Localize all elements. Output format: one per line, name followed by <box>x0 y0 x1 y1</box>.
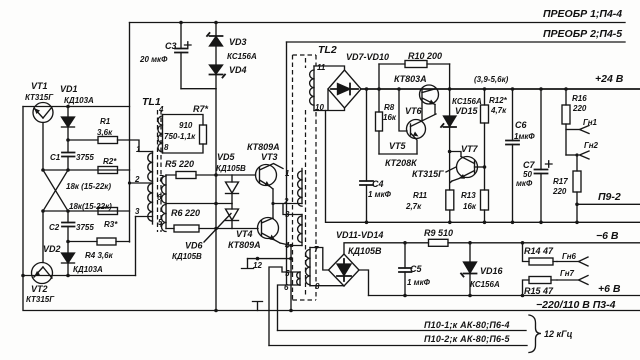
svg-text:R17: R17 <box>553 177 568 186</box>
node VD column R6 row <box>214 227 218 231</box>
label VT6 <box>405 106 423 116</box>
svg-text:С4: С4 <box>372 179 384 189</box>
svg-text:VT4: VT4 <box>236 229 253 239</box>
wire tap to TL2 pins 2-3 <box>273 204 302 215</box>
svg-text:910: 910 <box>179 121 193 130</box>
label +6 В <box>598 283 621 295</box>
label -6 В <box>596 230 619 242</box>
node VD column mid row <box>214 202 218 206</box>
wire П10-2 <box>269 345 527 347</box>
label R9 510 <box>424 228 453 238</box>
diode VD6 КД105В <box>226 204 239 229</box>
label C2 <box>49 223 60 232</box>
wire П10-1 <box>278 330 527 332</box>
chassis symbol on П3-4 <box>253 302 263 311</box>
capacitor C4 1мкФ <box>360 87 373 224</box>
svg-text:КТ208К: КТ208К <box>385 158 418 168</box>
svg-text:П10-1;к АК-80;П6-4: П10-1;к АК-80;П6-4 <box>424 320 510 330</box>
label КТ803А <box>394 74 427 84</box>
shield box TL2 dashed <box>293 55 317 300</box>
ground symbol at 12 <box>242 259 254 269</box>
svg-text:8: 8 <box>315 282 320 291</box>
svg-text:1: 1 <box>136 145 141 154</box>
svg-text:VD5: VD5 <box>217 152 236 162</box>
svg-text:VD15: VD15 <box>455 106 479 116</box>
svg-text:КД105В: КД105В <box>216 164 246 173</box>
svg-text:КТ315Г: КТ315Г <box>26 295 55 304</box>
label VD15 <box>455 106 479 116</box>
resistor R7 loop across 4-8 <box>163 115 207 154</box>
wire cross-coupling diagonal A <box>43 170 68 211</box>
wire rectifier minus column <box>326 111 640 223</box>
svg-text:Гн7: Гн7 <box>560 269 575 278</box>
wire TL2 pin7 to bridge <box>310 248 329 271</box>
label R6 220 <box>171 208 200 218</box>
svg-text:18к (15-22к): 18к (15-22к) <box>66 182 111 191</box>
wire VT7 collector row <box>448 150 461 157</box>
svg-text:220: 220 <box>572 104 587 113</box>
label (3,9-5,6к) <box>474 75 509 84</box>
resistor R10 200 <box>379 61 450 68</box>
label VD4 <box>229 65 247 75</box>
resistor R11 2,7к <box>446 152 454 225</box>
svg-text:8: 8 <box>164 143 169 152</box>
label КТ809А VT4 <box>228 240 261 250</box>
resistor R15 47 <box>521 277 557 298</box>
label VT2 <box>31 284 48 294</box>
wire VD3-VD4 column down <box>215 89 217 311</box>
label 12 <box>253 261 262 270</box>
label VD6 with pointer <box>185 214 231 251</box>
wire cross-coupling diagonal B <box>43 170 68 211</box>
wire left emitter column <box>23 107 640 311</box>
label VT4 <box>236 229 253 239</box>
resistor R9 510 <box>429 239 449 246</box>
label R16 <box>572 94 587 103</box>
svg-text:3: 3 <box>285 210 290 219</box>
label VT3 <box>261 152 278 162</box>
svg-text:R5 220: R5 220 <box>165 159 194 169</box>
label 3755 C2 <box>76 223 94 232</box>
svg-text:VT2: VT2 <box>31 284 48 294</box>
wire R8 bottom row <box>379 153 417 155</box>
resistor R5 220 <box>166 172 216 179</box>
svg-text:16к: 16к <box>383 113 397 122</box>
svg-text:мкФ: мкФ <box>516 179 533 188</box>
svg-text:1 мкФ: 1 мкФ <box>407 278 431 287</box>
wire TL1 bottom to emitter row <box>135 217 137 276</box>
zener VD3 КС156А <box>207 23 223 66</box>
svg-text:R13: R13 <box>461 191 476 200</box>
capacitor C2 3755 <box>62 211 75 253</box>
label C6 <box>515 120 527 130</box>
transistor VT3 КТ809А <box>256 164 284 190</box>
wire pin6 row <box>278 285 301 331</box>
zener VD16 КС156А <box>461 241 477 297</box>
connector Гн1 <box>566 126 589 134</box>
label C5 <box>410 264 422 274</box>
svg-text:С5: С5 <box>410 264 422 274</box>
label C3 <box>165 41 177 51</box>
label 3,6к R1 <box>97 128 113 137</box>
label VD11-VD14 <box>336 230 383 240</box>
transformer TL1 winding 7-6-5 <box>162 175 167 232</box>
svg-text:750-1,1к: 750-1,1к <box>164 132 196 141</box>
label VD2 <box>43 244 61 254</box>
transistor VT1 КТ315Г <box>33 103 53 171</box>
resistor R8 16к <box>376 64 383 154</box>
svg-text:КС156А: КС156А <box>452 97 482 106</box>
wire top supply rail ПРЕОБР1 <box>130 22 626 24</box>
resistor R16 220 <box>562 87 570 155</box>
svg-text:TL1: TL1 <box>142 96 161 108</box>
label pin 2 TL2 <box>283 197 289 206</box>
svg-text:П10-2;к АК-80;П6-5: П10-2;к АК-80;П6-5 <box>424 334 510 344</box>
bridge rectifier VD11-VD14 <box>329 254 360 286</box>
svg-text:R10 200: R10 200 <box>408 51 442 61</box>
svg-text:VT5: VT5 <box>389 141 407 151</box>
svg-text:R4 3,6к: R4 3,6к <box>85 251 114 260</box>
diode VD5 КД105В <box>226 175 239 204</box>
label П10-2 <box>424 334 510 344</box>
svg-text:R14 47: R14 47 <box>524 246 554 256</box>
node VD column R5 row <box>214 173 218 177</box>
svg-text:C2: C2 <box>49 223 60 232</box>
capacitor C5 1мкФ <box>399 241 412 297</box>
label 2,7к R11 <box>405 202 422 211</box>
label VT7 <box>461 144 479 154</box>
label pin 6 TL1 <box>157 193 162 202</box>
svg-text:3: 3 <box>135 207 140 216</box>
svg-text:7: 7 <box>314 245 319 254</box>
label П10-1 <box>424 320 510 330</box>
resistor R4 3,6к <box>68 238 130 245</box>
wire pin5 hook to П10-2 riser <box>269 267 300 346</box>
label TL2 <box>318 44 337 56</box>
svg-text:С6: С6 <box>515 120 527 130</box>
label pin 8 TL1 <box>164 143 169 152</box>
transformer TL1 primary winding <box>148 152 153 225</box>
label pin 3 TL1 <box>135 207 140 216</box>
wire ПРЕОБР 2 line <box>287 41 626 43</box>
label 1мкФ C5 <box>407 278 431 287</box>
svg-text:−6 В: −6 В <box>596 230 619 242</box>
svg-text:12: 12 <box>253 261 262 270</box>
svg-text:−220/110 В П3-4: −220/110 В П3-4 <box>536 299 616 311</box>
connector Гн2 <box>566 151 589 159</box>
label pin 8 TL2 <box>315 282 320 291</box>
capacitor C7 50мкФ <box>535 87 553 224</box>
wire VT2 emitter-collector row <box>21 274 135 278</box>
transistor VT6 КТ803А <box>420 85 439 120</box>
transistor VT4 КТ809А <box>258 218 281 244</box>
svg-text:КТ803А: КТ803А <box>394 74 427 84</box>
svg-text:16к: 16к <box>463 202 477 211</box>
label КС156А VD3-VD4 <box>227 52 257 61</box>
label pin 3 TL2 <box>285 210 290 219</box>
svg-text:R11: R11 <box>413 191 428 200</box>
label КД103А VD2 <box>73 265 103 274</box>
label pin 6 TL2 <box>284 283 289 292</box>
svg-text:Гн2: Гн2 <box>584 141 599 150</box>
label pin 7 TL2 <box>314 245 319 254</box>
wire pin11 to bridge top <box>314 66 345 70</box>
label R3 <box>104 220 118 229</box>
label C7 <box>523 160 535 170</box>
svg-text:R6 220: R6 220 <box>171 208 200 218</box>
svg-text:1 мкФ: 1 мкФ <box>368 190 392 199</box>
wire TL1 pin2 <box>128 181 153 184</box>
svg-text:220: 220 <box>552 187 567 196</box>
wire VT3 emitter to VT4 collector <box>271 189 274 218</box>
label pin 11 TL2 <box>317 63 326 72</box>
label 750-1,1к R7 <box>164 132 196 141</box>
svg-text:50: 50 <box>523 170 532 179</box>
svg-text:R7*: R7* <box>193 104 209 114</box>
transformer TL2 primary 1-2 <box>298 169 302 207</box>
wire left supply column <box>129 23 131 243</box>
resistor R3 18к <box>98 208 118 215</box>
label КС156А VD16 <box>470 280 500 289</box>
label C1 <box>50 153 61 162</box>
label R5 220 <box>165 159 194 169</box>
svg-text:1мкФ: 1мкФ <box>514 132 535 141</box>
wire VT1 collector row <box>23 106 130 108</box>
label R8 <box>384 103 395 112</box>
svg-text:VT3: VT3 <box>261 152 278 162</box>
svg-text:2,7к: 2,7к <box>405 202 422 211</box>
label pin 1 TL1 <box>136 145 141 154</box>
label R17 <box>553 177 568 186</box>
connector Гн7 <box>557 276 588 285</box>
label Гн7 <box>560 269 575 278</box>
label R13 <box>461 191 476 200</box>
label 18к R3 <box>69 202 112 211</box>
svg-text:КТ809А: КТ809А <box>247 142 280 152</box>
label Гн2 <box>584 141 599 150</box>
wire VT5 base stub <box>399 89 407 131</box>
label pin 5 TL2 <box>285 269 290 278</box>
svg-text:КД105В: КД105В <box>348 246 382 256</box>
svg-text:КД103А: КД103А <box>73 265 103 274</box>
label -220/110 В П3-4 <box>536 299 616 311</box>
svg-text:VD3: VD3 <box>229 37 247 47</box>
diode VD1 КД103А <box>62 105 75 152</box>
svg-text:КТ809А: КТ809А <box>228 240 261 250</box>
label 3755 C1 <box>76 153 94 162</box>
svg-text:VD1: VD1 <box>60 84 78 94</box>
label 16к R8 <box>383 113 397 122</box>
label ПРЕОБР 1 <box>543 8 622 20</box>
resistor R1 3,6к <box>66 137 129 144</box>
svg-text:Гн1: Гн1 <box>583 118 598 127</box>
svg-text:КД103А: КД103А <box>64 96 94 105</box>
svg-text:2: 2 <box>134 175 140 184</box>
label КТ315Г VT1 <box>25 93 54 102</box>
transformer TL2 winding 11-10 <box>310 66 314 111</box>
wire VT4 emitter to TL2 pin4 <box>280 243 302 246</box>
node VT6 rail <box>397 87 401 91</box>
zener VD15 КС156А <box>441 64 456 152</box>
svg-text:R8: R8 <box>384 103 395 112</box>
label VD7-VD10 <box>346 52 389 62</box>
label R10 200 <box>408 51 442 61</box>
svg-text:VD2: VD2 <box>43 244 61 254</box>
wire -6 rail with R9 <box>344 243 640 254</box>
label pin 5 TL1 <box>158 218 163 227</box>
label R15 47 <box>524 286 554 296</box>
label КТ315Г VT2 <box>26 295 55 304</box>
label VD16 <box>480 266 504 276</box>
label 1мкФ C4 <box>368 190 392 199</box>
wire +6 rail <box>369 295 640 297</box>
wire П9-2 <box>575 203 640 207</box>
label VD5 <box>217 152 236 162</box>
label pin 2 TL1 <box>134 175 140 184</box>
label КТ208К <box>385 158 418 168</box>
resistor R14 47 <box>521 241 557 265</box>
svg-text:VD7-VD10: VD7-VD10 <box>346 52 389 62</box>
label VD1 <box>60 84 78 94</box>
node VD column П3-4 <box>214 309 218 313</box>
svg-text:VT7: VT7 <box>461 144 479 154</box>
svg-text:6: 6 <box>284 283 289 292</box>
svg-text:11: 11 <box>317 63 326 72</box>
resistor R2 18к <box>98 167 118 174</box>
node VD3 top junction <box>214 21 218 25</box>
svg-text:3,6к: 3,6к <box>97 128 113 137</box>
svg-text:R2*: R2* <box>103 157 117 166</box>
label +24 В <box>595 73 624 85</box>
label TL1 <box>142 96 161 108</box>
label КС156А VD15 <box>452 97 482 106</box>
svg-text:18к(15-22к): 18к(15-22к) <box>69 202 112 211</box>
svg-text:VD11-VD14: VD11-VD14 <box>336 230 383 240</box>
diode VD2 КД103А <box>62 240 75 276</box>
svg-text:R3*: R3* <box>104 220 118 229</box>
capacitor C6 1мкФ <box>506 87 519 224</box>
svg-text:4,7к: 4,7к <box>490 106 507 115</box>
svg-text:ПРЕОБР 2;П4-5: ПРЕОБР 2;П4-5 <box>543 28 622 40</box>
label pin 7 TL1 <box>159 174 164 183</box>
svg-text:7: 7 <box>159 174 164 183</box>
svg-text:С7: С7 <box>523 160 535 170</box>
inner box edge ПРЕОБР2 module <box>286 42 288 285</box>
label 18к R2 <box>66 182 111 191</box>
wire C3 to VD4 bottom tie <box>181 88 216 90</box>
svg-text:20 мкФ: 20 мкФ <box>139 55 168 64</box>
label pin 10 TL2 <box>315 103 324 112</box>
svg-text:3755: 3755 <box>76 153 94 162</box>
label КД105В VD5 <box>216 164 246 173</box>
transformer TL2 winding 7-8 <box>306 248 310 286</box>
svg-text:4: 4 <box>158 105 164 114</box>
svg-text:5: 5 <box>158 218 163 227</box>
label pin 4 TL2 <box>284 241 290 250</box>
label Гн1 <box>583 118 598 127</box>
connector Гн6 <box>557 257 588 266</box>
label П9-2 <box>598 191 621 203</box>
wire VT1 base row <box>41 168 129 172</box>
label 16к R13 <box>463 202 477 211</box>
label 910 R7 <box>179 121 193 130</box>
label КТ809А VT3 <box>247 142 280 152</box>
wire +24 rail <box>361 88 640 90</box>
capacitor C3 20мкФ <box>175 23 191 89</box>
label VT5 <box>389 141 407 151</box>
wire bridge2 right to +6 rail <box>359 270 369 296</box>
svg-text:VD6: VD6 <box>185 241 204 251</box>
svg-text:R9 510: R9 510 <box>424 228 453 238</box>
label КТ315Г VT7 with pointer <box>412 167 456 179</box>
svg-text:2: 2 <box>283 197 289 206</box>
svg-text:VT1: VT1 <box>31 81 48 91</box>
svg-text:VD4: VD4 <box>229 65 247 75</box>
label 4,7к R12 <box>490 106 507 115</box>
svg-text:КД105В: КД105В <box>172 252 202 261</box>
svg-text:6: 6 <box>157 193 162 202</box>
svg-text:КС156А: КС156А <box>227 52 257 61</box>
transformer TL1 winding 4-8 <box>158 115 163 154</box>
label C4 <box>372 179 384 189</box>
wire TL1 pin1 feed <box>130 140 153 152</box>
svg-text:12 кГц: 12 кГц <box>544 329 573 339</box>
wire pin6 row <box>166 203 232 205</box>
transformer TL2 winding 5-6 <box>297 272 300 285</box>
label pin 1 TL2 <box>285 169 290 178</box>
svg-text:VD16: VD16 <box>480 266 504 276</box>
svg-text:КС156А: КС156А <box>470 280 500 289</box>
resistor R12 4,7к <box>481 87 489 190</box>
label VT1 <box>31 81 48 91</box>
wire VT2 base row <box>41 209 129 213</box>
label R7 <box>193 104 209 114</box>
label 50 C7 <box>523 170 532 179</box>
node C3 top junction <box>179 21 183 25</box>
label R12 <box>489 96 508 105</box>
core TL1 dashed <box>158 110 162 232</box>
label R2 <box>103 157 117 166</box>
wire R5 row to VT3 base <box>216 174 256 176</box>
label Гн6 <box>562 252 577 261</box>
label pin 4 TL1 <box>158 105 164 114</box>
label 1мкФ C6 <box>514 132 535 141</box>
resistor R6 220 <box>166 225 258 232</box>
label 220 R16 <box>572 104 587 113</box>
label VD3 <box>229 37 247 47</box>
wire screen 12 row <box>248 257 293 261</box>
label КД105В VD11 <box>348 246 382 256</box>
label 20мкФ C3 <box>139 55 168 64</box>
svg-text:+6 В: +6 В <box>598 283 621 295</box>
svg-text:КТ315Г: КТ315Г <box>412 169 444 179</box>
svg-text:(3,9-5,6к): (3,9-5,6к) <box>474 75 509 84</box>
label мкФ C7 <box>516 179 533 188</box>
svg-text:5: 5 <box>285 269 290 278</box>
svg-text:C1: C1 <box>50 153 61 162</box>
label 12 кГц <box>544 329 573 339</box>
label КД103А VD1 <box>64 96 94 105</box>
resistor R13 16к <box>481 190 489 224</box>
svg-text:VT6: VT6 <box>405 106 423 116</box>
transformer TL2 primary 3-4 <box>298 215 302 246</box>
capacitor C1 3755 <box>62 153 75 171</box>
svg-text:ПРЕОБР 1;П4-4: ПРЕОБР 1;П4-4 <box>543 8 622 20</box>
wire TL1 pin3 <box>136 216 153 218</box>
svg-text:Гн6: Гн6 <box>562 252 577 261</box>
transistor VT7 КТ315Г <box>452 157 485 182</box>
bridge rectifier VD7-VD10 <box>328 70 361 108</box>
